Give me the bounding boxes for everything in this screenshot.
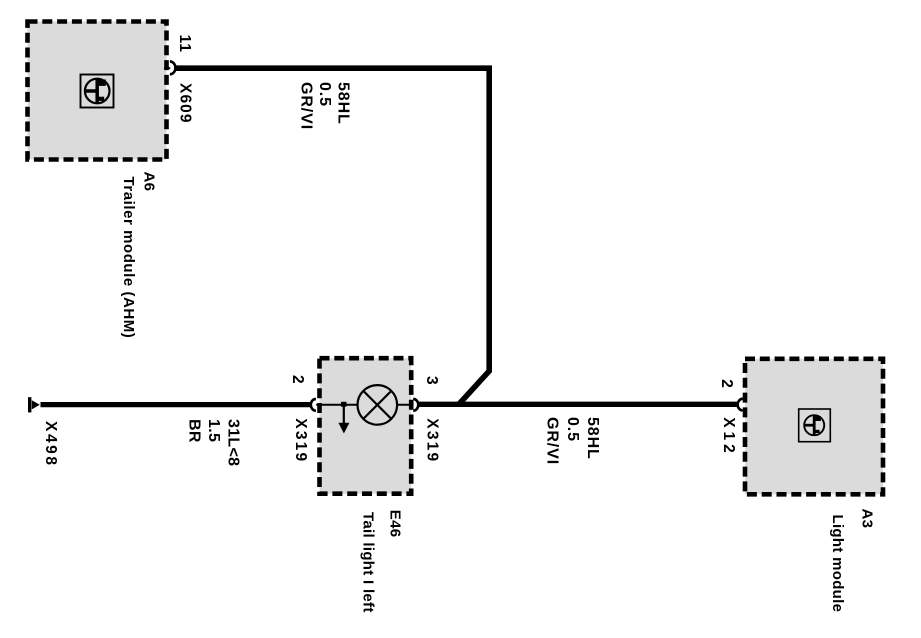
- connector X609 arc: [170, 61, 176, 74]
- svg-text:X319: X319: [292, 418, 309, 463]
- svg-text:1.5: 1.5: [205, 419, 222, 442]
- svg-text:E46: E46: [387, 510, 404, 538]
- pin lead from lamp to E46 pin 3: [397, 404, 413, 406]
- svg-text:GR/VI: GR/VI: [544, 417, 561, 465]
- wire 31L from X498 to E46 pin 2: [41, 402, 312, 407]
- svg-text:X498: X498: [42, 421, 59, 468]
- svg-text:58HL: 58HL: [584, 417, 601, 460]
- control module icon U-A6: [81, 75, 114, 108]
- svg-text:X609: X609: [177, 83, 194, 124]
- svg-text:58HL: 58HL: [335, 82, 352, 125]
- svg-text:X319: X319: [423, 418, 440, 463]
- control module icon U-A3: [799, 409, 831, 442]
- svg-text:Tail light I left: Tail light I left: [360, 512, 377, 613]
- connector X12 arc: [738, 399, 743, 411]
- svg-text:2: 2: [718, 379, 735, 389]
- ground arrow: [343, 405, 345, 423]
- ground branch junction dot: [341, 402, 347, 407]
- svg-text:X12: X12: [720, 417, 737, 457]
- svg-text:A3: A3: [859, 509, 876, 529]
- svg-text:A6: A6: [141, 172, 158, 192]
- control module A3 (Light module) box: [745, 359, 883, 495]
- wire end symbol X498: [28, 397, 40, 412]
- svg-text:GR/VI: GR/VI: [298, 82, 315, 130]
- svg-text:2: 2: [289, 375, 306, 385]
- pin lead from E46 pin 2 to lamp: [316, 404, 358, 406]
- wire 58HL from E46 pin 3 to A3 pin 2: [418, 402, 737, 407]
- svg-text:Light module: Light module: [829, 515, 846, 613]
- pin lead stub at A6 pin 11: [164, 67, 170, 69]
- svg-text:3: 3: [423, 376, 440, 386]
- wire 58HL from A6 pin 11: right, down, diagonal to junction: [175, 68, 489, 404]
- lamp symbol E46: [358, 385, 398, 425]
- svg-text:31L<8: 31L<8: [224, 419, 241, 466]
- lamp E46 (Tail light) box: [320, 358, 412, 494]
- control module A6 (Trailer module) box: [28, 22, 167, 160]
- connector X319 arc (left): [311, 399, 316, 411]
- svg-text:Trailer module (AHM): Trailer module (AHM): [120, 177, 137, 339]
- connector X319 arc (right): [413, 399, 418, 411]
- svg-text:BR: BR: [185, 419, 202, 443]
- svg-text:0.5: 0.5: [316, 82, 333, 107]
- svg-text:0.5: 0.5: [564, 417, 581, 442]
- svg-text:11: 11: [176, 35, 193, 53]
